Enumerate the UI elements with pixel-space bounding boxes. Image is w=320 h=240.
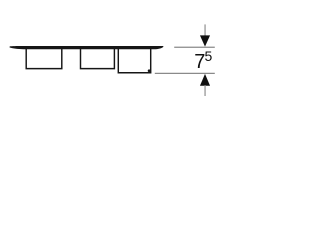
bottom extension line (155, 72, 215, 74)
drain dot in box 3 (148, 69, 151, 72)
top extension line (174, 46, 215, 48)
cabinet box 3 (118, 49, 150, 73)
cabinet box 1 (26, 49, 62, 69)
washtop slab profile (10, 46, 164, 49)
svg-text:5: 5 (205, 48, 213, 64)
dimension stem above (204, 24, 206, 36)
dimension stem below (204, 85, 206, 96)
arrowhead down (200, 35, 210, 46)
arrowhead up (200, 74, 210, 86)
cabinet box 2 (81, 49, 115, 69)
